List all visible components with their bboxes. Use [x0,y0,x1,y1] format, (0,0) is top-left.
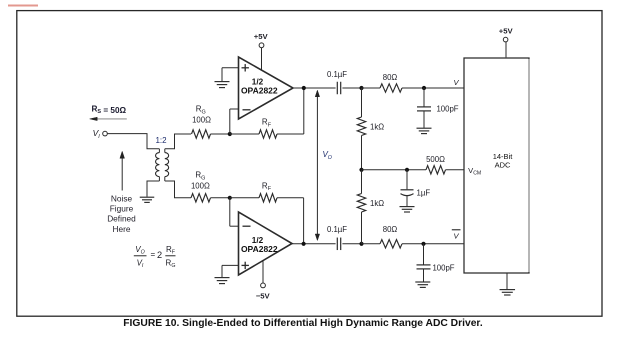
svg-text:100Ω: 100Ω [191,181,210,190]
svg-text:OPA2822: OPA2822 [241,86,278,96]
svg-text:+5V: +5V [254,32,269,41]
svg-text:1µF: 1µF [417,189,431,198]
svg-text:100Ω: 100Ω [192,115,211,124]
svg-text:2: 2 [157,250,162,260]
svg-text:+5V: +5V [499,27,514,36]
svg-text:Here: Here [113,224,131,234]
svg-text:=: = [151,250,156,259]
svg-text:Noise: Noise [111,193,133,203]
svg-text:Defined: Defined [107,214,136,224]
svg-text:500Ω: 500Ω [426,155,445,164]
svg-text:1kΩ: 1kΩ [370,199,384,208]
svg-text:0.1µF: 0.1µF [327,225,347,234]
svg-text:1kΩ: 1kΩ [370,123,384,132]
svg-text:FIGURE 10. Single-Ended to Dif: FIGURE 10. Single-Ended to Differential … [123,318,483,329]
svg-text:80Ω: 80Ω [383,225,398,234]
svg-text:Figure: Figure [110,204,134,214]
svg-text:RS = 50Ω: RS = 50Ω [92,104,127,115]
svg-text:−5V: −5V [256,292,271,301]
svg-text:80Ω: 80Ω [383,73,398,82]
svg-text:1:2: 1:2 [155,136,167,145]
svg-text:0.1µF: 0.1µF [327,70,347,79]
svg-text:OPA2822: OPA2822 [241,244,278,254]
svg-text:100pF: 100pF [436,105,458,114]
svg-text:100pF: 100pF [432,263,454,272]
svg-text:ADC: ADC [495,161,511,170]
